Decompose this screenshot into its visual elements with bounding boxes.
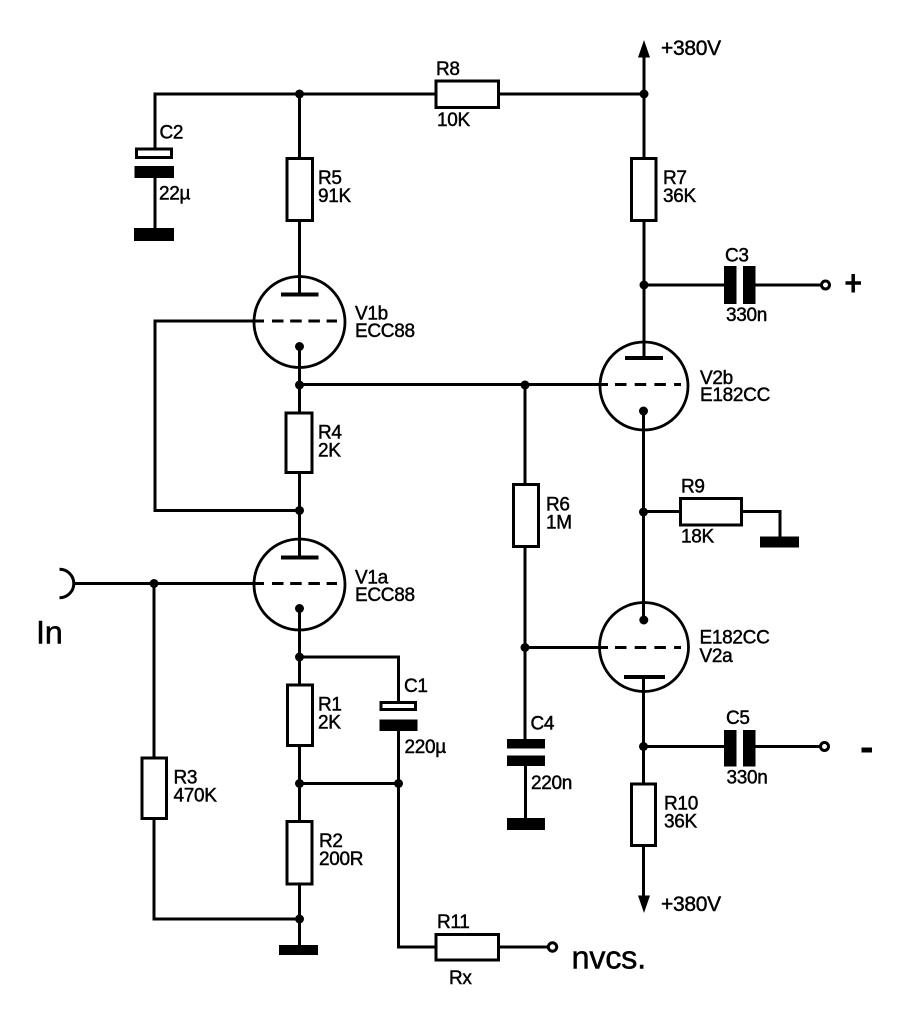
node junction V2a anode C5 — [639, 742, 648, 751]
wire R5 chain anode V1b — [298, 94, 301, 295]
node junction V1a cathode — [295, 653, 304, 662]
node junction V2b cathode R9 — [639, 508, 648, 517]
resistor R6 — [514, 485, 572, 547]
node junction top rail R5 — [295, 90, 304, 99]
ground below C2 — [134, 228, 174, 241]
wire down to R11 — [399, 784, 435, 948]
node nvcs terminal — [548, 940, 646, 976]
svg-text:C4: C4 — [531, 714, 555, 735]
svg-text:In: In — [36, 615, 63, 651]
wire R9 to ground — [743, 512, 780, 539]
wire V1b cathode chain R4 to V1a anode — [298, 347, 301, 559]
tube V1b — [254, 277, 415, 368]
resistor R7 — [632, 159, 697, 221]
wire C4 bottom lead — [524, 765, 527, 820]
resistor R1 — [288, 685, 342, 746]
wire top rail — [155, 94, 644, 148]
node junction V1b cathode — [295, 381, 304, 390]
wire node to V2b grid — [300, 383, 609, 386]
svg-text:Rx: Rx — [449, 968, 472, 989]
wire top supply lead — [643, 57, 646, 94]
tube V2a — [600, 603, 770, 692]
ground below R2 — [279, 945, 318, 955]
ground below C4 — [507, 818, 545, 830]
node junction input R3 — [150, 579, 159, 588]
svg-text:10K: 10K — [437, 110, 471, 131]
svg-text:ECC88: ECC88 — [355, 585, 415, 606]
svg-text:36K: 36K — [664, 812, 698, 833]
svg-text:C1: C1 — [404, 676, 428, 697]
svg-text:1M: 1M — [546, 513, 572, 534]
wire C2 bottom lead to ground — [154, 177, 157, 231]
svg-text:470K: 470K — [174, 786, 218, 807]
wire C5 to minus terminal — [756, 745, 820, 748]
capacitor C1 — [380, 676, 447, 758]
wire cathode node to C1 — [300, 657, 399, 702]
node junction R1 bottom — [295, 779, 304, 788]
wire C3 to plus terminal — [756, 284, 821, 287]
capacitor C2 — [135, 123, 191, 205]
node junction C3 tap — [640, 281, 649, 290]
node junction V2a grid — [521, 643, 530, 652]
tube V2b — [600, 342, 770, 430]
node junction loop to V1a anode — [295, 506, 304, 515]
wire node to C5 — [644, 745, 725, 748]
node junction C1 bottom — [394, 779, 403, 788]
svg-text:22µ: 22µ — [159, 184, 191, 205]
wire node to R9 — [644, 510, 680, 513]
svg-text:ECC88: ECC88 — [355, 321, 415, 342]
wire V2b cathode chain — [642, 411, 645, 620]
resistor R10 — [632, 784, 698, 846]
ground below R9 — [760, 537, 799, 548]
svg-text:2K: 2K — [318, 441, 341, 462]
node minus output terminal — [821, 743, 873, 753]
svg-text:R9: R9 — [681, 477, 705, 498]
svg-text:nvcs.: nvcs. — [572, 940, 646, 976]
svg-text:V2a: V2a — [700, 646, 734, 667]
wire R11 to nvcs terminal — [500, 946, 548, 949]
svg-text:330n: 330n — [726, 305, 767, 326]
tube V1a — [254, 539, 415, 630]
svg-text:220µ: 220µ — [405, 737, 447, 758]
svg-text:C2: C2 — [160, 123, 184, 144]
wire R7 chain anode V2b — [643, 94, 646, 358]
svg-text:18K: 18K — [681, 527, 715, 548]
svg-text:C5: C5 — [726, 708, 750, 729]
node junction bottom rail — [295, 915, 304, 924]
svg-text:91K: 91K — [318, 186, 352, 207]
svg-text:R8: R8 — [436, 59, 460, 80]
wire V2a grid left — [525, 646, 608, 649]
capacitor C3 — [724, 246, 767, 327]
node input connector — [36, 569, 74, 650]
wire R1 bottom node link — [300, 782, 399, 785]
svg-text:E182CC: E182CC — [700, 385, 770, 406]
svg-text:220n: 220n — [531, 773, 572, 794]
wire node to C3 — [644, 284, 724, 287]
node plus output terminal — [822, 274, 862, 293]
wire input to V1a grid — [73, 582, 264, 585]
wire V2a anode chain R10 — [642, 677, 645, 847]
power +380V top — [638, 37, 721, 60]
svg-text:330n: 330n — [727, 768, 768, 789]
node junction R6 top — [521, 381, 530, 390]
svg-text:200R: 200R — [319, 849, 363, 870]
capacitor C5 — [724, 708, 768, 789]
power +380V bottom — [638, 893, 721, 916]
wire V1a cathode chain R1 R2 — [298, 609, 301, 920]
svg-text:2K: 2K — [318, 713, 341, 734]
wire V1b grid left — [155, 321, 300, 511]
svg-text:36K: 36K — [663, 186, 697, 207]
wire bottom ground lead — [298, 919, 301, 946]
wire R6 chain to C4 — [524, 385, 527, 741]
resistor R9 — [681, 477, 742, 548]
svg-text:+380V: +380V — [661, 37, 721, 60]
node junction top rail R7 — [640, 90, 649, 99]
wire R3 chain — [154, 584, 300, 920]
svg-text:C3: C3 — [725, 246, 749, 267]
resistor R8 — [436, 59, 499, 131]
svg-text:+380V: +380V — [661, 893, 721, 916]
resistor R3 — [142, 758, 217, 819]
resistor R4 — [286, 413, 342, 473]
resistor R2 — [287, 822, 363, 885]
capacitor C4 — [507, 714, 572, 795]
svg-text:R11: R11 — [437, 912, 470, 933]
wire R10 to bottom supply arrow — [642, 847, 645, 896]
resistor R11 — [436, 912, 499, 989]
wire C1 bottom lead — [397, 730, 400, 784]
resistor R5 — [287, 159, 352, 221]
